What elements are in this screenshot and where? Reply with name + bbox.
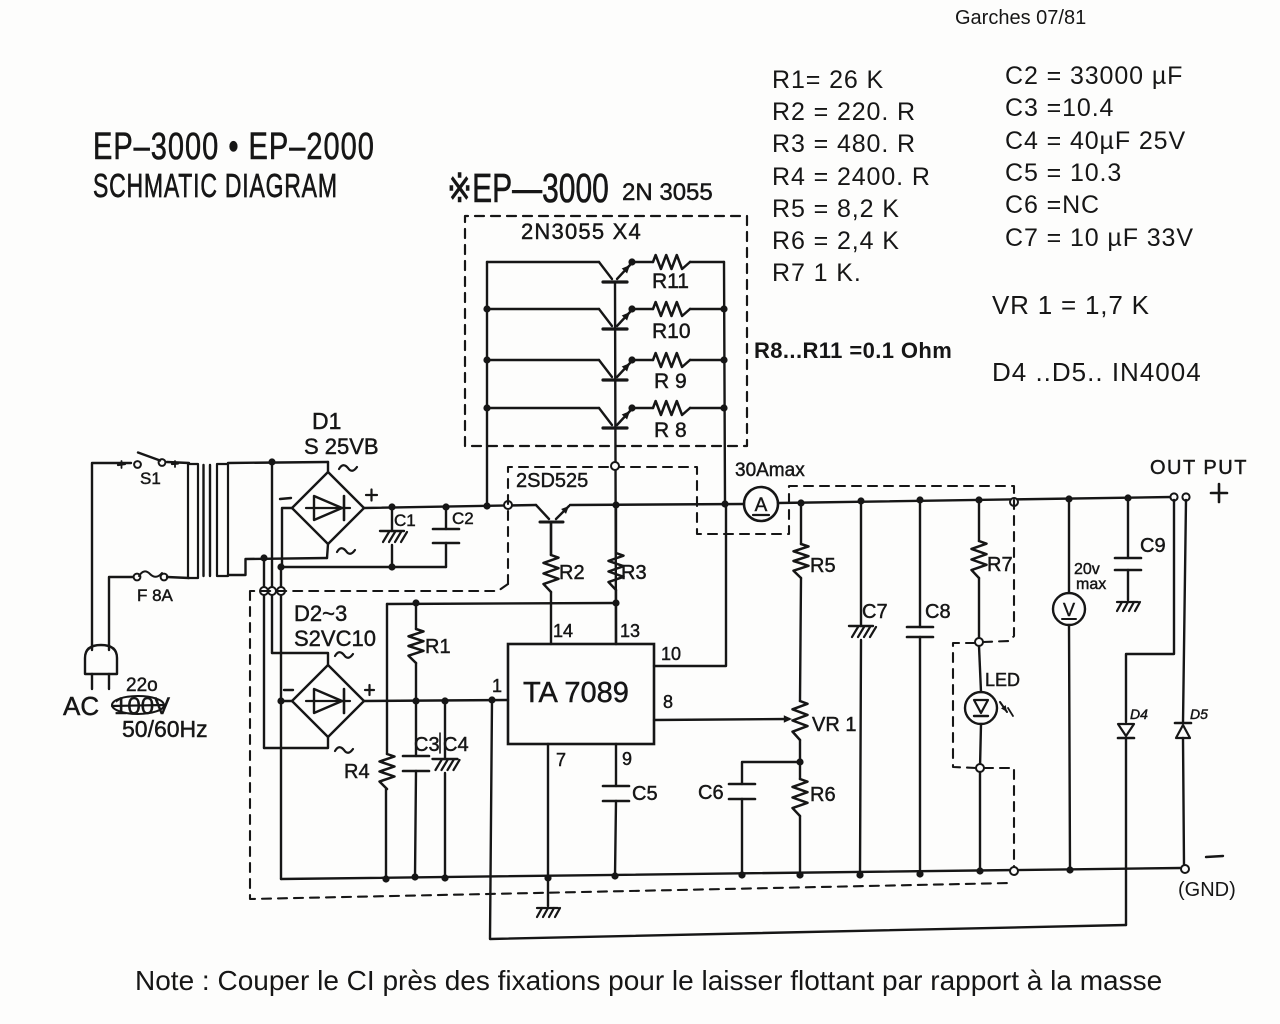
wire R2 to pin14 <box>550 592 552 644</box>
svg-text:R8...R11 =0.1 Ohm: R8...R11 =0.1 Ohm <box>754 338 952 363</box>
node bus R4 <box>382 875 389 882</box>
label minus <box>1206 856 1223 857</box>
label C3C4 divider <box>439 733 441 753</box>
connector bubble A <box>260 587 268 595</box>
svg-text:30Amax: 30Amax <box>735 460 805 481</box>
svg-text:50/60Hz: 50/60Hz <box>122 716 208 742</box>
node R1 bottom <box>412 697 419 704</box>
fuse F8A <box>134 574 141 581</box>
wire D4 down <box>1125 738 1127 925</box>
svg-text:R7 1 K.: R7 1 K. <box>772 259 862 287</box>
node bus LED <box>976 867 983 874</box>
svg-text:R 8: R 8 <box>654 419 687 442</box>
svg-text:S 25VB: S 25VB <box>304 434 379 459</box>
wire AC neutral to fuse <box>109 577 133 650</box>
wire R4 to bus <box>385 789 387 879</box>
resistor R8 <box>653 401 690 415</box>
node bus V <box>1066 866 1073 873</box>
node bus C6 <box>738 871 745 878</box>
wire emitter bus vertical <box>615 282 616 644</box>
node C4 top <box>441 697 448 704</box>
svg-text:1: 1 <box>492 676 502 696</box>
node rail r10 <box>720 305 727 312</box>
capacitor C6 <box>742 762 800 784</box>
svg-text:SCHMATIC DIAGRAM: SCHMATIC DIAGRAM <box>93 168 338 205</box>
wire D5 down <box>1183 738 1184 865</box>
svg-text:AC: AC <box>63 691 99 721</box>
capacitor C4 <box>444 701 446 759</box>
svg-text:C6 =NC: C6 =NC <box>1005 191 1100 219</box>
terminal output plus <box>1170 493 1177 500</box>
node 2SD525 base bubble <box>504 501 512 509</box>
connector bubble LED bottom <box>976 764 984 772</box>
voltmeter V <box>1068 499 1070 593</box>
svg-text:VR 1 = 1,7 K: VR 1 = 1,7 K <box>992 290 1150 320</box>
wire pin9 down <box>615 744 617 786</box>
wire collector bus to ammeter <box>570 504 744 505</box>
svg-text:C4 = 40µF 25V: C4 = 40µF 25V <box>1005 127 1186 155</box>
node bus C3 <box>411 873 418 880</box>
wire base rail and base lines <box>486 262 488 506</box>
IC U1 TA7089 <box>508 644 654 744</box>
svg-text:TA 7089: TA 7089 <box>523 677 629 709</box>
wire pin10 up <box>654 505 726 666</box>
ground pin7 <box>547 878 549 906</box>
capacitor C9 <box>1127 498 1129 558</box>
svg-text:S1: S1 <box>140 469 161 488</box>
label D2 ac bottom <box>335 747 353 753</box>
title SCHMATIC DIAGRAM <box>93 168 338 205</box>
transformer T1 primary <box>188 464 198 578</box>
capacitor C2 <box>445 507 447 529</box>
svg-text:D5: D5 <box>1190 706 1208 722</box>
svg-text:D2~3: D2~3 <box>294 601 347 626</box>
svg-text:R6: R6 <box>810 784 836 806</box>
svg-text:C5 = 10.3: C5 = 10.3 <box>1005 159 1122 187</box>
dashed boundary control section <box>508 467 1014 642</box>
node C7 top <box>857 497 864 504</box>
node pin1 drop <box>488 696 495 703</box>
svg-text:S2VC10: S2VC10 <box>294 626 376 651</box>
wires emitter resistor rows <box>628 258 635 265</box>
AC plug <box>85 645 117 674</box>
wire secondary top to D1 <box>228 462 328 463</box>
wire pin1 down long <box>490 700 1126 939</box>
label D1 minus <box>280 498 291 499</box>
wire output rail right <box>724 262 725 504</box>
wire pin7 to bus <box>547 744 549 878</box>
label D1 ac bottom <box>337 548 355 554</box>
node R5 top <box>797 499 804 506</box>
connector bubble emitter bus <box>611 462 619 470</box>
svg-text:R10: R10 <box>652 320 691 343</box>
node rail r8 <box>720 404 727 411</box>
svg-text:A: A <box>755 495 768 516</box>
LED indicator <box>979 646 981 692</box>
wire VR1 to R6 <box>799 740 801 779</box>
svg-text:V: V <box>1063 600 1075 620</box>
node R1 top <box>412 599 419 606</box>
svg-text:R3 = 480. R: R3 = 480. R <box>772 130 916 158</box>
LED rays <box>1000 702 1007 712</box>
diode D4 <box>1118 724 1134 736</box>
connector bubble bus <box>1010 498 1018 506</box>
svg-text:C9: C9 <box>1140 535 1166 557</box>
svg-text:R2: R2 <box>559 562 585 584</box>
wire pin8 to VR1 <box>654 719 789 720</box>
wire D1 plus bus <box>364 505 536 508</box>
label section EP-3000 <box>447 166 609 211</box>
resistor R7 <box>972 541 987 578</box>
svg-text:C2: C2 <box>452 509 474 528</box>
node C1 negative <box>388 563 395 570</box>
wire tapA to D2 bottom <box>264 737 328 748</box>
svg-text:C6: C6 <box>698 782 724 804</box>
capacitor C1 <box>391 507 393 531</box>
svg-text:R2 = 220. R: R2 = 220. R <box>772 98 916 126</box>
potentiometer VR1 <box>793 701 808 740</box>
node R3 bottom <box>612 599 619 606</box>
wire R3 top <box>615 505 617 553</box>
node bus R6 <box>796 871 803 878</box>
svg-text:EP–3000 • EP–2000: EP–3000 • EP–2000 <box>93 126 375 167</box>
resistor R9 <box>653 353 690 367</box>
wire R4 lower <box>386 701 388 754</box>
wire minus rail down <box>280 567 282 879</box>
svg-text:F 8A: F 8A <box>137 586 174 605</box>
svg-text:14: 14 <box>553 621 573 641</box>
switch S1 <box>134 461 141 468</box>
svg-text:R 9: R 9 <box>654 370 687 393</box>
wire AC live up to S1 <box>92 463 131 650</box>
resistor R2 <box>544 555 559 592</box>
dashed box 2N3055 array <box>465 216 747 446</box>
svg-text:2SD525: 2SD525 <box>516 470 588 492</box>
node C6 tap <box>796 758 803 765</box>
label D2 ac top <box>335 652 353 658</box>
svg-text:LED: LED <box>985 670 1020 690</box>
ammeter A 30Amax <box>744 487 778 521</box>
connector bubble bus bottom <box>1010 867 1018 875</box>
svg-text:Note : Couper le CI près des f: Note : Couper le CI près des fixations p… <box>135 965 1162 996</box>
connector bubble C <box>277 587 285 595</box>
svg-text:9: 9 <box>622 749 632 769</box>
wire output to D4 <box>1126 500 1174 722</box>
node C8 top <box>916 496 923 503</box>
resistor R5 <box>794 544 809 578</box>
node V top <box>1065 495 1072 502</box>
wire R4 drop <box>386 604 388 701</box>
node rail r9 <box>720 356 727 363</box>
svg-text:D4: D4 <box>1130 706 1148 722</box>
wire ground bus <box>281 868 1181 879</box>
resistor R4 <box>380 754 395 789</box>
svg-text:C1: C1 <box>394 511 416 530</box>
wire R7 to LED node <box>978 578 980 642</box>
svg-text:C7 = 10 µF 33V: C7 = 10 µF 33V <box>1005 224 1194 252</box>
svg-text:C5: C5 <box>632 783 658 805</box>
wire S1 to transformer <box>167 462 189 463</box>
node bus C5 <box>611 872 618 879</box>
node secondary bottom tap <box>260 554 267 561</box>
svg-text:C3: C3 <box>414 734 440 756</box>
resistor R1 <box>415 603 417 629</box>
capacitor C8 <box>919 500 921 627</box>
wire R3 to pin13 <box>615 590 617 644</box>
svg-text:8: 8 <box>663 692 673 712</box>
node bus C8 <box>916 870 923 877</box>
svg-text:2N3055 X4: 2N3055 X4 <box>521 219 642 244</box>
transistors Q1-Q4 2N3055 <box>603 280 627 283</box>
wire R5 top <box>800 503 802 544</box>
wire R7 top <box>978 500 980 541</box>
wire tapB to D2 top <box>272 653 328 665</box>
wire bus ammeter to output <box>778 497 1172 503</box>
wire tap B down <box>271 462 273 653</box>
wire secondary bottom to D1 <box>228 558 327 575</box>
capacitor C7 <box>860 501 862 626</box>
svg-text:10: 10 <box>661 644 681 664</box>
node C9 top <box>1124 494 1131 501</box>
svg-text:R4: R4 <box>344 761 370 783</box>
svg-text:R1= 26 K: R1= 26 K <box>772 66 884 94</box>
resistor R6 <box>793 779 808 816</box>
svg-text:R6 = 2,4 K: R6 = 2,4 K <box>772 227 900 255</box>
wire R6 to bus <box>799 816 801 875</box>
svg-text:※EP—3000: ※EP—3000 <box>447 166 609 211</box>
svg-text:R4 = 2400. R: R4 = 2400. R <box>772 163 931 191</box>
svg-text:C7: C7 <box>862 601 888 623</box>
wire node line <box>387 603 616 604</box>
label D2 minus <box>284 689 293 691</box>
svg-text:R1: R1 <box>425 636 451 658</box>
connector bubble LED top <box>975 638 983 646</box>
svg-text:C3 =10.4: C3 =10.4 <box>1005 94 1114 122</box>
label D1 plus <box>366 494 377 496</box>
resistor R11 <box>653 255 690 269</box>
bridge rectifier D1 <box>292 472 364 544</box>
svg-text:(GND): (GND) <box>1178 879 1236 901</box>
wire C1 C2 negative rail <box>282 566 446 568</box>
wire D2 plus to pin1 <box>364 700 508 701</box>
node R7 top <box>975 496 982 503</box>
svg-text:C8: C8 <box>925 601 951 623</box>
terminal GND <box>1181 865 1189 873</box>
node bus C4 <box>441 874 448 881</box>
wire 2SD525 emitter to R2 <box>550 522 552 555</box>
label D2 plus <box>365 689 374 691</box>
svg-text:2N 3055: 2N 3055 <box>622 179 713 206</box>
svg-text:D4 ..D5.. IN4004: D4 ..D5.. IN4004 <box>992 357 1202 387</box>
svg-text:max: max <box>1076 576 1106 593</box>
resistor R3 <box>609 553 624 590</box>
wire D1 minus down <box>282 508 292 567</box>
capacitor C5 <box>603 785 629 788</box>
diode D5 <box>1175 722 1191 725</box>
svg-text:VR 1: VR 1 <box>812 714 856 736</box>
node bus C7 <box>856 871 863 878</box>
node bus pin7 <box>544 874 551 881</box>
label D1 ac top <box>339 465 357 471</box>
capacitor C3 <box>415 701 417 756</box>
svg-text:Garches 07/81: Garches 07/81 <box>955 7 1086 29</box>
svg-text:R5 = 8,2 K: R5 = 8,2 K <box>772 195 900 223</box>
svg-text:13: 13 <box>620 621 640 641</box>
label output plus <box>1211 492 1227 495</box>
transformer core <box>202 465 204 576</box>
node emitter bus junction <box>612 501 619 508</box>
svg-text:R11: R11 <box>652 270 689 293</box>
wire D2 minus to rail <box>281 700 292 702</box>
title EP-3000 EP-2000 <box>93 126 375 167</box>
svg-text:C4: C4 <box>443 734 469 756</box>
svg-text:7: 7 <box>556 750 566 770</box>
svg-text:R7: R7 <box>987 554 1013 576</box>
svg-text:R5: R5 <box>810 555 836 577</box>
node pin10 riser junction <box>721 500 728 507</box>
transistor Q5 2SD525 <box>536 505 549 519</box>
wire fuse to transformer <box>167 577 189 578</box>
wire D1 bottom entry <box>327 544 328 558</box>
node minus corner <box>277 563 284 570</box>
wire LED to bus <box>979 772 981 871</box>
svg-text:C2 = 33000 µF: C2 = 33000 µF <box>1005 62 1183 90</box>
wire D1 top entry <box>327 462 329 472</box>
svg-text:OUT PUT: OUT PUT <box>1150 457 1248 479</box>
resistor R10 <box>653 302 690 316</box>
svg-text:D1: D1 <box>312 408 341 434</box>
node array rail junction <box>483 502 490 509</box>
transformer T1 secondary <box>217 464 228 576</box>
svg-text:R3: R3 <box>621 562 647 584</box>
connector bubble B <box>268 587 276 595</box>
node secondary top tap <box>268 458 275 465</box>
wire R5 to VR1 <box>800 578 801 701</box>
wire output to D5 <box>1183 500 1186 723</box>
wire tap A down <box>263 558 265 748</box>
bridge rectifier D2 <box>292 665 364 737</box>
